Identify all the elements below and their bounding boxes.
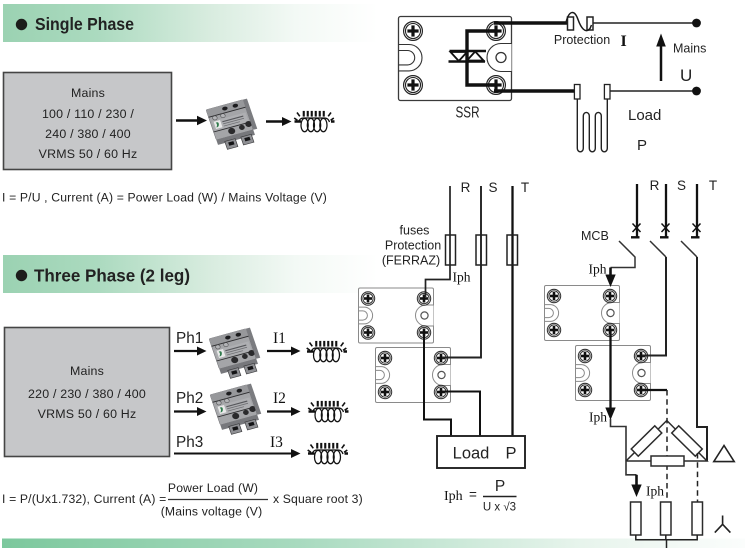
load coil L2 (308, 401, 348, 422)
svg-text:(Mains voltage (V): (Mains voltage (V) (161, 505, 263, 519)
wire T to delta right vertex (697, 257, 707, 461)
resistor delta left (631, 426, 662, 456)
svg-text:P: P (505, 445, 516, 463)
svg-text:I = P/(Ux1.732), Current (A) =: I = P/(Ux1.732), Current (A) = (2, 492, 166, 506)
wire U1 to load (494, 89, 575, 92)
svg-text:T: T (709, 178, 717, 193)
svg-text:Load: Load (628, 107, 661, 124)
svg-text:fuses: fuses (400, 224, 430, 238)
screw terminal U1 pin1 (404, 22, 423, 41)
svg-text:U: U (680, 66, 692, 85)
wire S to SSR C2 (642, 257, 666, 356)
resistor delta right (672, 426, 703, 456)
SSR B2 (376, 348, 451, 403)
fuse FS (476, 235, 487, 265)
arrow I1 (267, 347, 301, 356)
svg-text:Iph: Iph (589, 410, 607, 425)
svg-text:R: R (461, 180, 471, 195)
dashed wire S phase to wye (666, 390, 668, 502)
wire U1 to fuse (494, 21, 570, 24)
wire phase R to SSR B1 (426, 186, 451, 297)
svg-text:VRMS 50 / 60 Hz: VRMS 50 / 60 Hz (38, 407, 137, 421)
fuse FT (507, 235, 518, 265)
mains box (single phase) (4, 73, 172, 170)
delta symbol (714, 446, 734, 462)
delta outline (626, 421, 707, 462)
wire phase T to load (511, 186, 513, 436)
load box (437, 436, 525, 468)
node mains top (692, 19, 701, 28)
arrow mains to SSR (176, 116, 207, 126)
arrow Ph2 (174, 407, 207, 416)
footer green bar (2, 539, 745, 548)
svg-text:220 / 230 / 380 / 400: 220 / 230 / 380 / 400 (28, 387, 146, 401)
wire SSR C2 out (642, 389, 667, 391)
wire SSR B2 to load (441, 392, 480, 437)
MCB pole S (650, 184, 670, 257)
banner: Single Phase header (3, 4, 378, 42)
svg-text:Iph: Iph (589, 262, 607, 277)
svg-text:Mains: Mains (71, 86, 105, 100)
wye symbol (715, 516, 731, 533)
svg-text:SSR: SSR (456, 105, 480, 122)
screw terminal U1 pin2 (487, 22, 506, 41)
wire SSR C1 down (609, 330, 611, 409)
wire SSR B1 to load (424, 333, 451, 436)
screw terminal U1 pin4 (487, 76, 506, 95)
svg-text:P: P (495, 478, 505, 495)
svg-text:I = P/U , Current (A) = Power: I = P/U , Current (A) = Power Load (W) /… (2, 191, 327, 205)
arrow Ph3 (direct) (174, 449, 301, 458)
wire fuse to mains node (594, 22, 694, 24)
SSR B1 (359, 288, 434, 343)
node mains bottom (692, 87, 701, 96)
svg-text:Iph: Iph (453, 270, 471, 285)
fuse F1 protection (566, 13, 593, 31)
svg-text:T: T (521, 180, 529, 195)
svg-text:I3: I3 (270, 434, 283, 451)
current arrow Iph to delta (605, 408, 615, 421)
svg-text:Three Phase (2 leg): Three Phase (2 leg) (34, 266, 190, 286)
arrow I2 (267, 407, 301, 416)
load coil L3 (308, 443, 348, 464)
svg-text:Iph: Iph (646, 484, 664, 499)
SSR product photo Ph1 (209, 328, 264, 381)
triac Q1 (449, 51, 487, 62)
wire load to mains node (610, 90, 693, 92)
SSR C1 (545, 286, 620, 341)
svg-text:I1: I1 (273, 330, 286, 347)
screw terminal U1 pin3 (404, 76, 423, 95)
current arrow Iph to wye (631, 475, 641, 497)
mains box (three phase) (5, 328, 170, 457)
load coil L1 (307, 341, 347, 362)
svg-text:I2: I2 (273, 390, 286, 407)
SSR U1 body (399, 17, 512, 101)
wire wye bus (636, 535, 697, 548)
svg-text:Power Load (W): Power Load (W) (168, 481, 258, 495)
wire delta to Iph arrow (626, 461, 637, 475)
svg-text:Protection: Protection (385, 239, 441, 253)
resistor wye 2 (661, 502, 672, 535)
resistor wye 3 (692, 502, 703, 535)
svg-text:S: S (677, 178, 686, 193)
svg-text:Mains: Mains (70, 364, 104, 378)
label fuses Protection (FERRAZ) (382, 224, 441, 268)
svg-text:(FERRAZ): (FERRAZ) (382, 254, 440, 268)
MCB pole R (611, 184, 641, 268)
svg-text:x Square root 3): x Square root 3) (273, 492, 363, 506)
svg-text:P: P (637, 137, 647, 154)
svg-text:=: = (469, 487, 477, 502)
resistor wye 1 (631, 502, 642, 535)
formula three phase (2, 481, 363, 519)
svg-text:Ph1: Ph1 (176, 330, 203, 347)
arrow Ph1 (174, 347, 207, 356)
svg-text:MCB: MCB (581, 229, 609, 243)
svg-text:R: R (650, 178, 660, 193)
arrow mains up (656, 34, 666, 82)
dashed wire T phase to wye (697, 453, 699, 502)
banner: Three Phase header (3, 255, 378, 293)
svg-text:VRMS 50 / 60 Hz: VRMS 50 / 60 Hz (39, 147, 138, 161)
svg-text:240 / 380 / 400: 240 / 380 / 400 (45, 127, 131, 141)
svg-text:Single Phase: Single Phase (35, 14, 134, 34)
internal wire U1 (467, 31, 496, 85)
MCB pole T (681, 184, 701, 257)
svg-text:100 / 110 / 230 /: 100 / 110 / 230 / (42, 107, 134, 121)
svg-text:Load: Load (453, 445, 490, 463)
SSR C2 (576, 346, 651, 401)
SSR product photo Ph2 (210, 384, 265, 437)
svg-text:Protection: Protection (554, 33, 610, 47)
current arrow Iph into SSR C1 (605, 268, 615, 288)
svg-text:U x √3: U x √3 (483, 501, 516, 514)
svg-text:S: S (488, 180, 497, 195)
resistor delta bottom (651, 456, 684, 466)
heater load element (574, 85, 610, 152)
load coil icon (single phase) (294, 111, 334, 132)
svg-text:Ph3: Ph3 (176, 434, 203, 451)
fuse FR (446, 235, 456, 265)
SSR product photo (single phase) (206, 99, 261, 152)
svg-text:Mains: Mains (673, 42, 706, 56)
formula Iph (444, 478, 517, 514)
arrow SSR to load (266, 117, 292, 126)
svg-text:I: I (621, 33, 627, 50)
svg-text:Ph2: Ph2 (176, 390, 203, 407)
svg-text:Iph: Iph (444, 489, 463, 504)
wire to delta left vertex (611, 419, 627, 461)
wire phase S to SSR B2 (442, 186, 481, 358)
